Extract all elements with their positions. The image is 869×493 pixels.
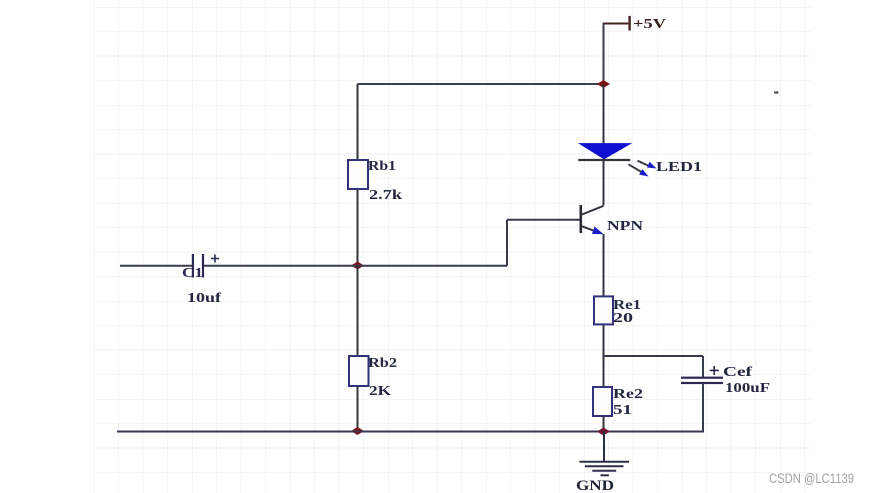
svg-text:Re2: Re2	[613, 387, 643, 402]
svg-text:100uF: 100uF	[725, 381, 770, 396]
wire input left segment	[120, 265, 192, 267]
LED LED1 triangle	[580, 144, 631, 159]
capacitor Cef plates	[681, 377, 723, 385]
LED light arrow 1	[638, 161, 657, 169]
svg-text:LED1: LED1	[656, 160, 702, 175]
svg-text:GND: GND	[576, 478, 614, 493]
plus sign of C1	[211, 255, 219, 263]
stray mark	[774, 91, 779, 93]
resistor Re1	[594, 296, 613, 324]
wire +5V to corner	[604, 23, 629, 25]
svg-text:10uf: 10uf	[187, 291, 221, 306]
svg-text:+5V: +5V	[633, 17, 666, 32]
power +5V bar	[628, 16, 630, 31]
wire emitter to Re1	[603, 234, 605, 296]
transistor Q1 NPN	[580, 205, 604, 234]
wire Re1 to Re2	[603, 324, 605, 387]
svg-text:CSDN @LC1139: CSDN @LC1139	[769, 471, 854, 486]
wire to base	[507, 219, 580, 221]
resistor Rb1	[348, 160, 368, 189]
wire main vertical from +5V to top junction	[603, 23, 605, 85]
svg-text:Rb1: Rb1	[368, 159, 396, 174]
wire Re2 to bottom rail	[603, 416, 605, 431]
resistor Rb2	[349, 356, 369, 386]
wire input right segment	[204, 265, 507, 267]
junction bottom left	[351, 427, 364, 435]
wire Cef to bottom rail	[702, 384, 704, 431]
resistor Re2	[593, 387, 612, 416]
svg-text:Rb2: Rb2	[368, 356, 397, 371]
wire bottom rail	[117, 431, 704, 433]
svg-text:2.7k: 2.7k	[369, 188, 402, 203]
junction top right	[597, 80, 610, 88]
wire Rb2 to bottom rail	[357, 386, 359, 431]
wire Cef drop	[702, 356, 704, 378]
wire base riser	[506, 220, 508, 266]
svg-text:NPN: NPN	[607, 219, 643, 234]
svg-text:Cef: Cef	[723, 365, 752, 380]
svg-text:51: 51	[613, 403, 632, 418]
wire LED cathode to collector	[603, 160, 605, 206]
LED LED1 wire anode	[603, 84, 605, 144]
ground	[579, 431, 629, 475]
junction bottom right	[597, 428, 610, 436]
wire branch to Cef	[604, 355, 704, 357]
junction middle left	[351, 262, 364, 270]
svg-text:2K: 2K	[369, 384, 391, 399]
wire top horizontal	[358, 83, 604, 85]
wire left vertical to Rb1	[357, 84, 359, 160]
LED LED1 cathode bar	[578, 159, 630, 161]
plus sign of Cef	[710, 366, 719, 375]
capacitor C1 10uf plates	[192, 254, 204, 278]
svg-text:20: 20	[613, 311, 633, 326]
LED light arrow 2	[628, 164, 648, 176]
svg-text:C1: C1	[182, 266, 203, 281]
wire Rb1 to middle junction	[357, 189, 359, 266]
wire middle junction to Rb2	[357, 266, 359, 357]
